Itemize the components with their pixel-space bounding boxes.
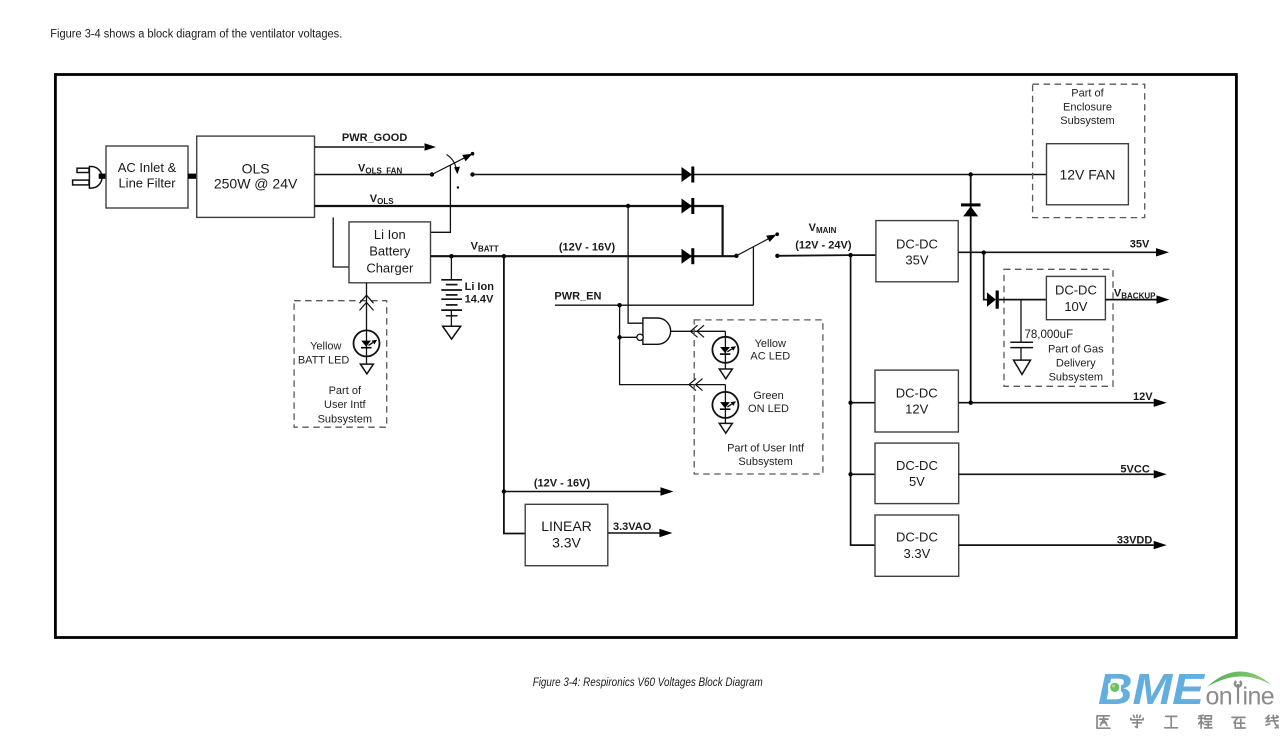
svg-text:Delivery: Delivery [1056, 357, 1096, 369]
chevron arrows left on AC LED wire [691, 325, 705, 337]
svg-text:Yellow: Yellow [755, 338, 786, 350]
wire PWR_EN [555, 304, 753, 306]
svg-text:Subsystem: Subsystem [1049, 371, 1103, 383]
svg-text:Subsystem: Subsystem [318, 413, 372, 425]
svg-text:Figure 3-4: Respironics V60 Vo: Figure 3-4: Respironics V60 Voltages Blo… [533, 675, 763, 689]
LED D1 yellow BATT LED [354, 330, 380, 356]
svg-text:PWR_EN: PWR_EN [554, 291, 601, 303]
DC-DC 5V converter box [875, 443, 959, 504]
svg-text:12V: 12V [905, 402, 928, 417]
LED D6 green ON LED [712, 392, 738, 418]
fan feed vertical wire [970, 175, 972, 403]
wire V_OLS [315, 206, 723, 256]
svg-text:DC-DC: DC-DC [896, 237, 938, 252]
svg-text:LINEAR: LINEAR [541, 518, 592, 534]
switch S1 lever to charger wire [431, 165, 451, 232]
LED D5 yellow AC LED [712, 337, 738, 363]
diode D8 to backup [987, 291, 999, 309]
svg-text:Subsystem: Subsystem [1060, 115, 1114, 127]
OLS 250W power supply box [197, 136, 315, 217]
DC-DC 3.3V converter box [875, 515, 959, 576]
svg-text:AC Inlet &: AC Inlet & [118, 160, 177, 175]
svg-text:35V: 35V [1130, 239, 1150, 251]
diode D2 on fan line [682, 167, 695, 183]
wire into LED D5 [724, 331, 726, 369]
DC-DC 35V converter box [876, 221, 958, 282]
svg-text:DC-DC: DC-DC [1055, 283, 1097, 298]
diode D7 on fan feed (pointing up) [961, 203, 981, 206]
svg-text:Part of: Part of [1071, 87, 1104, 99]
wire 35V output [958, 251, 1156, 253]
svg-text:DC-DC: DC-DC [896, 385, 938, 400]
yellow BATT LED dashed subsystem box [294, 301, 387, 428]
Li Ion Battery Charger box [349, 222, 431, 283]
svg-text:35V: 35V [905, 253, 928, 268]
wire charger to BATT LED [366, 283, 368, 364]
capacitor C1 78,000uF [1020, 300, 1022, 343]
junction PWR_EN drop [617, 303, 621, 307]
svg-text:BATT LED: BATT LED [298, 355, 350, 367]
svg-text:Part of User Intf: Part of User Intf [727, 442, 805, 454]
svg-text:Enclosure: Enclosure [1063, 102, 1112, 114]
svg-text:Figure 3-4 shows a block diagr: Figure 3-4 shows a block diagram of the … [50, 29, 342, 41]
OLS to charger feed wire [333, 217, 349, 267]
capacitor ground [1020, 347, 1022, 360]
node 35V to backup [982, 250, 986, 254]
NAND output wire to AC LED [671, 330, 726, 332]
12V FAN box [1047, 144, 1129, 205]
svg-text:12V: 12V [1133, 391, 1153, 403]
switch S2 lever to PWR_EN wire [752, 247, 754, 305]
svg-text:10V: 10V [1064, 299, 1087, 314]
svg-text:Charger: Charger [366, 260, 414, 275]
svg-text:250W @ 24V: 250W @ 24V [214, 176, 298, 192]
gas delivery dashed subsystem box [1004, 269, 1113, 386]
battery Li Ion 14.4V [449, 254, 453, 258]
wire into LED D6 [724, 385, 726, 424]
svg-text:(12V - 16V): (12V - 16V) [559, 242, 616, 254]
svg-text:OLS: OLS [242, 160, 270, 176]
svg-text:Green: Green [753, 390, 784, 402]
svg-text:on: on [1206, 683, 1233, 711]
svg-text:AC LED: AC LED [750, 351, 790, 363]
switch S2 [734, 254, 738, 258]
chevron arrows left on ON LED wire [689, 379, 703, 391]
svg-text:Yellow: Yellow [310, 341, 341, 353]
wire (12V - 16V) output [502, 489, 506, 493]
svg-text:(12V - 24V): (12V - 24V) [795, 240, 852, 252]
svg-text:3.3VAO: 3.3VAO [613, 521, 652, 533]
wire 5VCC output [959, 473, 1154, 475]
AC Inlet & Line Filter box U1 [106, 146, 188, 208]
wire V_OLS_FAN [315, 174, 431, 176]
svg-text:Part of: Part of [329, 385, 362, 397]
junction V_OLS to NAND [626, 204, 630, 208]
Chinese tagline [1097, 715, 1278, 728]
svg-text:78,000uF: 78,000uF [1025, 329, 1074, 341]
wire V_MAIN [777, 254, 876, 257]
svg-text:3.3V: 3.3V [904, 546, 931, 561]
NAND gate U2 [643, 318, 671, 344]
filter-to-OLS thick bar [188, 174, 197, 179]
svg-text:DC-DC: DC-DC [896, 529, 938, 544]
wire 3.3VAO output [608, 532, 660, 534]
wire fan line [470, 172, 474, 176]
wire 12V output [958, 402, 1153, 404]
wire 33VDD output [959, 544, 1154, 546]
svg-text:Battery: Battery [369, 244, 411, 259]
svg-text:ON LED: ON LED [748, 403, 789, 415]
svg-text:Part of Gas: Part of Gas [1048, 344, 1104, 356]
svg-text:PWR_GOOD: PWR_GOOD [342, 132, 407, 144]
svg-text:3.3V: 3.3V [552, 535, 581, 551]
svg-text:Subsystem: Subsystem [738, 456, 792, 468]
wire V_BACKUP [999, 299, 1047, 301]
chevron arrows up [360, 295, 374, 310]
node fan line junction [969, 172, 973, 176]
plug-to-filter thick bar [99, 174, 107, 179]
DC-DC 10V converter box [1046, 276, 1105, 319]
svg-text:Line Filter: Line Filter [118, 176, 176, 191]
main feed bus wire down [851, 255, 875, 545]
svg-text:Li Ion: Li Ion [374, 227, 406, 242]
user intf LEDs dashed subsystem box [694, 320, 823, 474]
svg-text:(12V - 16V): (12V - 16V) [534, 478, 591, 490]
enclosure dashed subsystem box [1033, 84, 1145, 217]
svg-text:DC-DC: DC-DC [896, 458, 938, 473]
battery ground [450, 310, 452, 326]
DC-DC 12V converter box [875, 370, 958, 432]
LINEAR 3.3V regulator box [525, 504, 608, 565]
svg-text:33VDD: 33VDD [1117, 535, 1153, 547]
svg-text:12V FAN: 12V FAN [1059, 167, 1115, 183]
svg-text:5VCC: 5VCC [1120, 464, 1149, 476]
junction V_BATT to LINEAR [502, 254, 506, 258]
svg-text:Li Ion: Li Ion [465, 281, 495, 293]
AC plug icon [73, 167, 102, 189]
wire V_BATT [431, 255, 737, 257]
switch S1 [430, 172, 434, 176]
diagram outer border frame [55, 75, 1236, 638]
svg-text:ine: ine [1243, 683, 1275, 711]
svg-text:User Intf: User Intf [324, 399, 367, 411]
wire PWR_GOOD [315, 146, 425, 148]
node V_MAIN junction [848, 253, 852, 257]
diode D4 on V_BATT line [682, 248, 695, 264]
svg-text:5V: 5V [909, 474, 925, 489]
diode D3 on V_OLS line [682, 198, 695, 214]
svg-text:14.4V: 14.4V [465, 294, 494, 306]
